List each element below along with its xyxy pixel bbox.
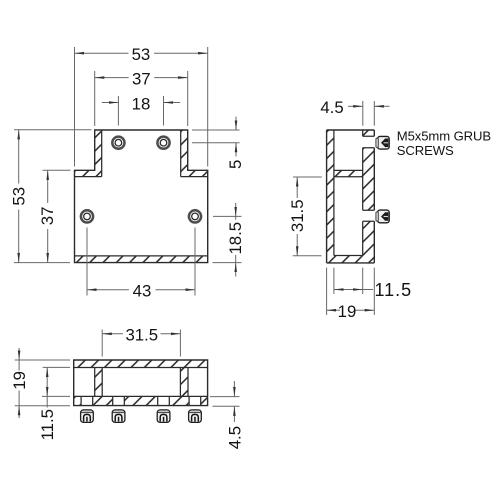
side view divider lines (334, 170, 363, 176)
side view hatched left wall (327, 130, 334, 263)
dim 18 top (102, 94, 180, 125)
side view bottom edge (327, 262, 375, 264)
svg-text:4.5: 4.5 (320, 98, 343, 117)
side view right wall inner line segments (362, 130, 364, 256)
bottom grub screw 1 (81, 410, 94, 423)
svg-text:18: 18 (132, 94, 151, 113)
dim 4.5 bottom view right (210, 381, 244, 449)
svg-text:43: 43 (133, 282, 152, 301)
svg-text:4.5: 4.5 (225, 426, 244, 449)
dim 43 bottom (87, 228, 195, 301)
side view bottom inner line (334, 255, 363, 257)
bottom view wall band edges (95, 368, 188, 397)
grub screw side top (376, 136, 389, 149)
bottom grub screw 3 (157, 410, 170, 423)
side view screw hole lines (363, 136, 375, 221)
dim 31.5 side left (288, 177, 322, 256)
front view inner wall edge left (101, 130, 103, 177)
front view hatched bottom strip (75, 256, 208, 263)
dim 19 side bottom (327, 268, 375, 321)
svg-text:5: 5 (226, 160, 245, 169)
front view inner wall edge right (180, 130, 182, 177)
front view hatched right wall + ledge (181, 130, 208, 177)
svg-text:31.5: 31.5 (125, 326, 158, 345)
svg-text:19: 19 (338, 302, 357, 321)
bottom strip slot 1 (81, 396, 93, 407)
svg-text:37: 37 (132, 69, 151, 88)
svg-text:SCREWS: SCREWS (397, 143, 454, 158)
dim 37 top (95, 69, 188, 126)
hole mid-right (189, 210, 201, 222)
front view ledge bottom right (181, 176, 208, 178)
svg-text:11.5: 11.5 (38, 409, 57, 440)
dim 4.5 side top (320, 98, 389, 126)
dim 53 top (75, 45, 208, 167)
bottom view cavity bottom line (74, 395, 208, 397)
side view left edge (326, 130, 328, 263)
side view hatched bottom strip (334, 256, 363, 263)
side view left wall inner line (333, 130, 335, 256)
front view hatched left wall + ledge (75, 130, 102, 177)
dim 31.5 bottom view top (102, 326, 180, 357)
bottom strip slot 3 (158, 396, 170, 407)
side view hatched right wall segments (363, 130, 375, 136)
hole top-right (157, 137, 169, 149)
dim 5 right (192, 117, 245, 169)
dim 18.5 right (213, 203, 245, 277)
svg-text:11.5: 11.5 (375, 280, 413, 300)
side view right edge segments (373, 130, 375, 263)
bottom grub screw 2 (112, 410, 125, 423)
dim 11.5 side bottom (334, 268, 412, 300)
front view outline (75, 130, 208, 263)
hole top-left (112, 137, 124, 149)
front view ledge bottom left (75, 176, 102, 178)
dim 53 left (10, 130, 92, 263)
side view top edge (327, 129, 375, 131)
front view bottom strip top line (75, 255, 208, 257)
side view hatched divider (334, 170, 363, 176)
bottom view hatched bottom strip (74, 396, 208, 405)
svg-text:37: 37 (38, 207, 57, 226)
bottom grub screw 4 (189, 410, 202, 423)
hole mid-left (81, 210, 93, 222)
bottom view hatched top strip (74, 360, 208, 368)
svg-text:18.5: 18.5 (226, 222, 245, 255)
svg-text:53: 53 (10, 187, 29, 206)
bottom strip slot 4 (189, 396, 201, 407)
bottom strip slot 2 (113, 396, 125, 407)
dim 19 bottom view left (10, 348, 70, 418)
dim 11.5 bottom view left (38, 367, 70, 440)
svg-text:19: 19 (10, 371, 29, 390)
svg-text:53: 53 (132, 45, 151, 64)
bottom view top strip line (74, 367, 208, 369)
bottom view outline (74, 360, 208, 406)
bottom view hatched left band (95, 368, 103, 397)
grub screw side bottom (376, 210, 389, 223)
bottom view hatched right band (180, 368, 188, 397)
dim 37 left (38, 170, 71, 262)
svg-text:31.5: 31.5 (288, 199, 307, 232)
svg-text:M5x5mm GRUB: M5x5mm GRUB (397, 128, 492, 143)
